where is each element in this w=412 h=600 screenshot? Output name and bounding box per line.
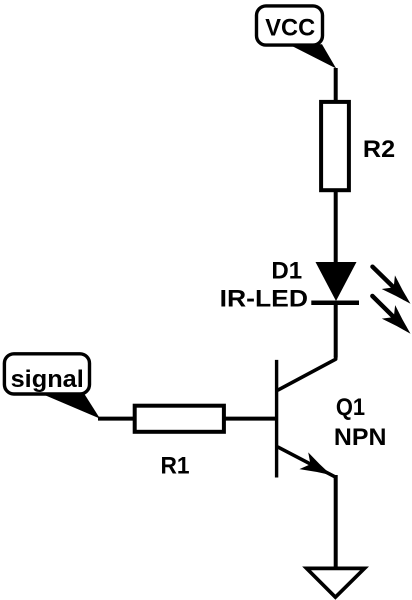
- wire: signal tail to R1: [98, 417, 135, 421]
- wire: R1 to Q1 base: [224, 417, 276, 421]
- transistor Q1 emitter diagonal: [278, 447, 336, 480]
- transistor Q1 collector diagonal: [278, 356, 336, 391]
- resistor R2 body: [321, 102, 349, 190]
- svg-text:D1: D1: [271, 258, 302, 285]
- ground symbol: [307, 568, 365, 597]
- svg-text:signal: signal: [11, 366, 84, 393]
- light emission arrow 2: [372, 296, 412, 340]
- resistor R1 body: [135, 406, 224, 432]
- wire: VCC tail to R2: [334, 68, 338, 102]
- LED D1 anode triangle: [316, 262, 357, 301]
- svg-text:NPN: NPN: [334, 424, 387, 451]
- svg-text:Q1: Q1: [336, 394, 365, 421]
- wire: R2 to D1: [334, 190, 338, 264]
- wire: D1 to Q1 collector: [334, 303, 338, 358]
- svg-text:IR-LED: IR-LED: [220, 286, 308, 313]
- net label VCC pointer tail: [289, 44, 337, 68]
- net label signal pointer tail: [41, 393, 100, 418]
- net label VCC bubble: [257, 6, 323, 45]
- svg-text:R1: R1: [161, 453, 190, 480]
- transistor Q1 base bar: [275, 360, 278, 478]
- transistor Q1 emitter arrowhead: [299, 452, 335, 483]
- net label signal bubble: [4, 354, 89, 394]
- svg-text:VCC: VCC: [265, 15, 315, 42]
- wire: Q1 emitter to ground: [334, 475, 338, 568]
- svg-text:R2: R2: [363, 136, 395, 163]
- light emission arrow 1: [373, 267, 412, 311]
- LED D1 cathode bar: [311, 301, 359, 306]
